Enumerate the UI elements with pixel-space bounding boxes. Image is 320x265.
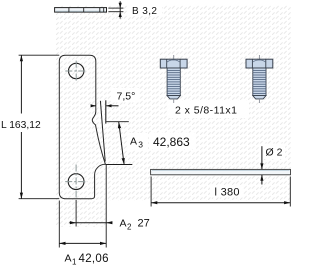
- B dimension line and arrows: [119, 1, 122, 18]
- hole centre extension to A2 dimension: [75, 200, 77, 227]
- plate edge view bar: [55, 8, 107, 13]
- A3 extension lines: [106, 122, 133, 165]
- svg-text:A: A: [65, 252, 72, 264]
- hatch watermark below plate: [55, 201, 107, 227]
- rod length dimension: [151, 177, 290, 207]
- svg-text:2 x 5/8-11x1: 2 x 5/8-11x1: [175, 105, 237, 117]
- bottom hole crosshair: [65, 165, 87, 200]
- svg-text:A: A: [130, 135, 137, 147]
- top hole: [69, 63, 84, 78]
- svg-text:42,863: 42,863: [153, 135, 190, 149]
- bent tab side edge at 7.5 deg: [100, 101, 105, 162]
- plate outline: [59, 55, 105, 199]
- svg-text:A: A: [120, 217, 127, 229]
- diameter leader: [260, 146, 263, 184]
- svg-text:Ø 2: Ø 2: [266, 146, 283, 158]
- svg-text:7,5°: 7,5°: [117, 91, 136, 103]
- A2 dimension: [69, 222, 112, 224]
- 7.5 degree dimension arrows: [91, 104, 119, 107]
- svg-text:42,06: 42,06: [79, 253, 109, 265]
- bent tab edge (7.5 deg) upper extension: [105, 100, 107, 123]
- L dimension line: [20, 55, 22, 199]
- hatch watermark main area: [55, 5, 291, 201]
- svg-text:1: 1: [72, 257, 77, 265]
- A1 dimension: [58, 201, 60, 248]
- svg-text:B 3,2: B 3,2: [132, 6, 157, 17]
- svg-text:27: 27: [138, 217, 150, 229]
- L dimension extension lines: [19, 55, 60, 199]
- svg-text:l 380: l 380: [215, 187, 240, 199]
- white label boxes: [128, 3, 162, 16]
- bottom hole: [68, 174, 84, 190]
- bolt 1: [160, 55, 187, 103]
- svg-text:2: 2: [127, 222, 132, 231]
- A3 dimension line (slanted 7.5 deg): [119, 122, 124, 165]
- svg-text:3: 3: [138, 140, 143, 150]
- rod bar: [151, 169, 291, 174]
- label L 163,12: [0, 114, 45, 133]
- extension line below tab down to A dimensions: [105, 165, 107, 248]
- svg-text:L 163,12: L 163,12: [1, 120, 41, 131]
- bolt 2: [246, 55, 273, 103]
- B extension lines: [108, 8, 123, 12]
- top hole crosshair: [65, 61, 87, 82]
